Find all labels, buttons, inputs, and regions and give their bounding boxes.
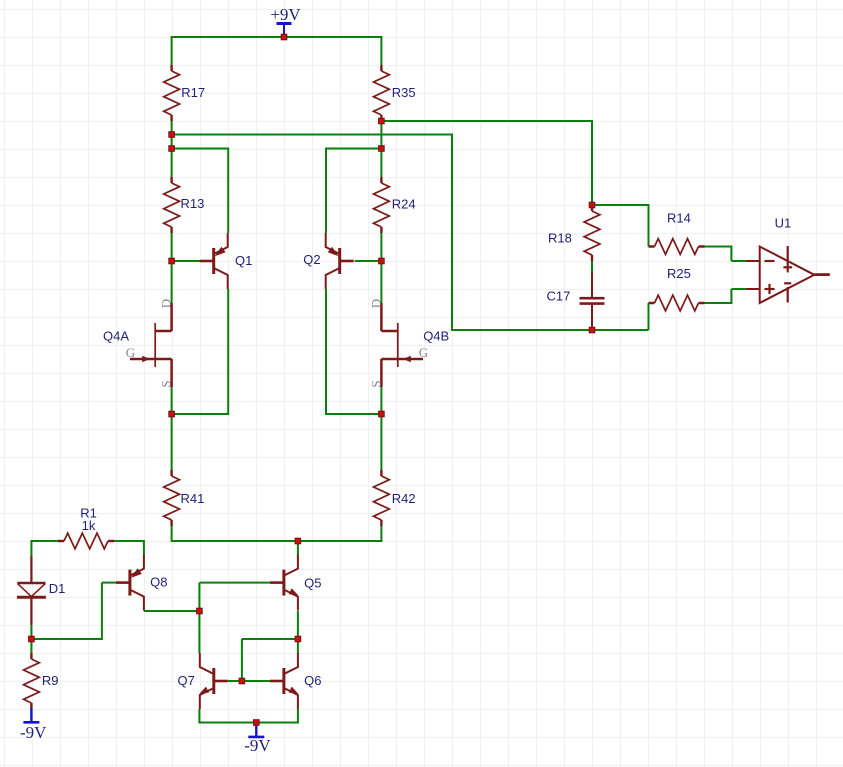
node D1 cathode junction	[29, 636, 35, 642]
wire Q4B source to R42	[380, 387, 382, 470]
svg-text:D1: D1	[49, 581, 66, 596]
wire Q8 base vertical	[101, 583, 103, 640]
wire D1 node to Q8 base horizontal	[31, 638, 102, 640]
svg-text:U1: U1	[775, 216, 792, 231]
svg-text:Q7: Q7	[178, 673, 195, 688]
transistor Q5	[282, 570, 285, 596]
wire Q1 emitter vertical	[227, 148, 229, 234]
resistor R14	[649, 245, 705, 247]
wire R1 to D1	[30, 540, 32, 556]
transistor Q4B	[397, 323, 399, 367]
transistor Q6	[282, 668, 285, 694]
svg-text:D: D	[159, 299, 174, 308]
wire R18 to C17	[591, 261, 593, 273]
wire node to Q5 base vertical	[198, 583, 200, 612]
wire Q7 base to Q6 base	[228, 680, 270, 682]
svg-text:S: S	[368, 380, 383, 387]
resistor R1	[58, 540, 114, 542]
svg-text:1k: 1k	[82, 518, 96, 533]
wire Q4B source to Q2 collector horizontal	[326, 413, 381, 415]
node Q5 emitter junction	[295, 636, 301, 642]
resistor R13	[170, 177, 172, 233]
power -9V bottom	[255, 723, 257, 736]
resistor R25	[649, 302, 705, 304]
node Q5 collector junction	[295, 538, 301, 544]
svg-text:R35: R35	[392, 85, 416, 100]
wire R35 to R18 horizontal	[381, 120, 592, 122]
transistor Q1	[212, 248, 215, 274]
wire Q2 base	[355, 260, 382, 262]
wire Q2 emitter top horizontal	[326, 148, 381, 150]
wire top +9V rail	[171, 36, 383, 38]
transistor Q8	[128, 570, 131, 596]
wire Q2 emitter vertical	[325, 148, 327, 234]
svg-text:R41: R41	[181, 491, 205, 506]
wire Q1 collector vertical	[227, 289, 229, 415]
svg-text:Q1: Q1	[235, 253, 252, 268]
svg-text:G: G	[419, 345, 428, 360]
svg-text:Q5: Q5	[304, 576, 321, 591]
node Q4B source junction	[379, 411, 385, 417]
resistor R24	[380, 177, 382, 233]
svg-text:Q4B: Q4B	[423, 329, 449, 344]
transistor Q7	[212, 668, 215, 694]
node Q1 base junction	[169, 258, 175, 264]
wire R18 top vertical	[591, 120, 593, 205]
node junction x4 y149	[379, 146, 385, 152]
node Q2 base junction	[379, 258, 385, 264]
wire Q2 collector vertical	[325, 289, 327, 415]
node base junction	[239, 678, 245, 684]
wire R17 top	[171, 36, 173, 65]
wire R17 bottom to R13 top	[171, 121, 173, 177]
wire Q1 emitter top horizontal	[172, 148, 229, 150]
power +9V symbol	[277, 22, 292, 25]
wire Q8 collector to node	[144, 610, 200, 612]
svg-text:G: G	[126, 345, 135, 360]
wire Q8 base	[102, 582, 116, 584]
diode D1	[30, 556, 32, 583]
transistor Q4A	[154, 323, 156, 367]
svg-text:Q4A: Q4A	[103, 329, 129, 344]
wire R25 jog vertical	[730, 289, 732, 304]
wire R1 left	[31, 540, 58, 542]
node C17 bottom junction	[589, 327, 595, 333]
node R18 top junction	[589, 202, 595, 208]
wire R14 to U1	[705, 246, 732, 248]
wire R13 bottom through Q1 base node	[171, 233, 173, 303]
node Q8 collector junction	[197, 608, 203, 614]
wire R1 right	[114, 540, 144, 542]
wire U1 inverting input	[731, 260, 745, 262]
resistor R9	[30, 653, 32, 709]
svg-text:R17: R17	[181, 85, 205, 100]
resistor R42	[380, 470, 382, 526]
svg-text:R42: R42	[392, 491, 416, 506]
wire R35 bottom to R24 top	[380, 121, 382, 177]
wire Q4A source to R41	[171, 387, 173, 470]
svg-text:Q6: Q6	[304, 673, 321, 688]
wire D1 to R9	[30, 625, 32, 653]
wire mirror tie vertical	[241, 639, 243, 681]
wire R18 node to R14 horizontal	[592, 204, 649, 206]
svg-text:+9V: +9V	[270, 5, 301, 24]
wire node A vertical	[451, 134, 453, 331]
node -9V junction	[254, 720, 260, 726]
svg-text:C17: C17	[547, 289, 571, 304]
svg-text:R13: R13	[181, 196, 205, 211]
wire R1 to Q8 emitter	[143, 540, 145, 555]
resistor R41	[170, 470, 172, 526]
svg-text:R25: R25	[667, 266, 691, 281]
wire Q6 emitter down	[297, 709, 299, 723]
node junction x1 y135	[169, 132, 175, 138]
node junction x1 y149	[169, 146, 175, 152]
svg-text:S: S	[159, 380, 174, 387]
svg-text:-9V: -9V	[20, 723, 47, 742]
wire R42 bottom	[380, 526, 382, 542]
op-amp U1	[760, 247, 815, 304]
svg-text:R14: R14	[667, 210, 691, 225]
resistor R18	[591, 205, 593, 261]
wire node A horizontal	[172, 134, 452, 136]
wire node A bottom horizontal	[451, 329, 649, 331]
node +9V junction	[281, 34, 287, 40]
svg-text:Q2: Q2	[303, 252, 320, 267]
wire R14 jog vertical	[730, 246, 732, 262]
wire C17 bottom	[591, 326, 593, 331]
svg-text:R18: R18	[548, 231, 572, 246]
wire to R25 left	[648, 303, 650, 330]
wire Q7 emitter down	[198, 709, 200, 723]
transistor Q2	[338, 248, 341, 274]
wire U1 non-inverting input	[731, 288, 745, 290]
resistor R35	[380, 65, 382, 121]
svg-text:-9V: -9V	[244, 736, 271, 755]
wire R25 to U1	[705, 302, 732, 304]
wire R41 bottom	[171, 526, 173, 542]
capacitor C17	[591, 273, 593, 298]
wire R14 left vertical	[648, 204, 650, 247]
wire mirror tie horizontal	[242, 638, 298, 640]
svg-text:R9: R9	[42, 673, 59, 688]
svg-text:D: D	[368, 299, 383, 308]
wire Q5 base horizontal	[199, 582, 270, 584]
node R35 bottom junction	[379, 118, 385, 124]
wire Q5 emitter to Q6 collector	[297, 611, 299, 653]
wire Q4A source to Q1 collector horizontal	[172, 413, 229, 415]
wire node to Q7 collector	[198, 611, 200, 653]
wire R35 top	[380, 36, 382, 65]
svg-text:Q8: Q8	[150, 575, 167, 590]
wire Q5 collector	[297, 541, 299, 555]
wire tail rail	[172, 540, 382, 542]
svg-text:R24: R24	[392, 196, 416, 211]
wire Q1 base	[172, 260, 201, 262]
resistor R17	[170, 65, 172, 121]
node Q4A source junction	[169, 411, 175, 417]
wire R24 bottom through Q2 base node	[380, 233, 382, 303]
power -9V left	[30, 708, 32, 722]
wire bottom -9V rail	[198, 722, 299, 724]
